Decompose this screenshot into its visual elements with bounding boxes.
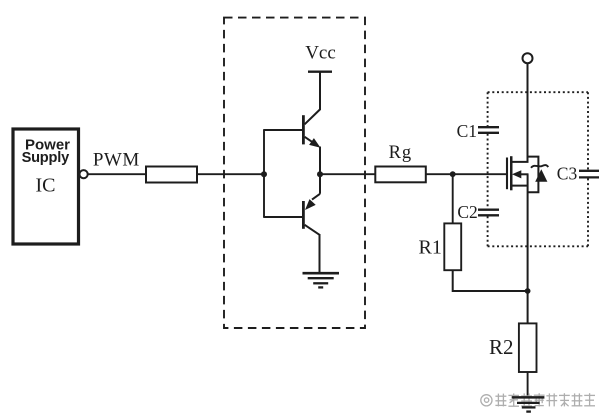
svg-text:Rg: Rg <box>389 143 413 163</box>
svg-text:C3: C3 <box>557 164 578 184</box>
svg-text:R1: R1 <box>419 236 442 258</box>
svg-text:C1: C1 <box>457 121 477 141</box>
svg-text:R2: R2 <box>489 335 514 359</box>
svg-text:Vcc: Vcc <box>305 43 336 64</box>
svg-text:IC: IC <box>36 175 56 197</box>
svg-text:C2: C2 <box>457 202 477 222</box>
svg-text:PWM: PWM <box>93 150 140 171</box>
svg-text:Supply: Supply <box>22 150 71 166</box>
